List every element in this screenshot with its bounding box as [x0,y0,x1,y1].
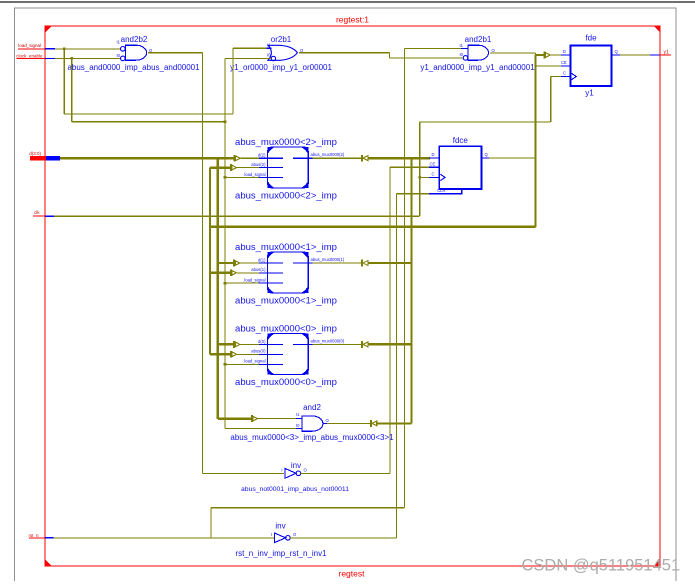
wire inv output to fdce CE vertical [301,472,390,474]
svg-text:abus_not0001_imp_abus_not00011: abus_not0001_imp_abus_not00011 [241,486,349,493]
svg-text:d(2): d(2) [258,153,266,158]
svg-text:d(1): d(1) [258,257,266,262]
bus tap arrow into fde D [544,52,551,59]
flip-flop fdce [429,136,489,194]
wire fdce CLR from rst_n_inv [397,194,429,538]
bus horizontal to left bundle [210,226,536,228]
wire tap to fde D pin [550,54,561,56]
svg-text:abus_mux0000(0): abus_mux0000(0) [311,338,345,343]
wire tap to mux d(2) pin [241,157,259,159]
flip-flop fde y1 [561,33,620,97]
svg-text:y1: y1 [585,89,594,98]
wire fdce CE from inv abus_not0001 [390,167,429,473]
wire clk to clock vertical [54,215,420,217]
svg-text:rst_n_inv_imp_rst_n_inv1: rst_n_inv_imp_rst_n_inv1 [235,549,327,558]
wire mux 1 output [313,262,363,264]
svg-text:regtest: regtest [339,569,366,579]
svg-text:D: D [432,152,435,157]
svg-text:abus_mux0000<0>_imp: abus_mux0000<0>_imp [235,377,337,388]
svg-text:d(3:0): d(3:0) [29,151,41,156]
bus tap arrow abus(1) [210,272,230,274]
wire mux 0 output [313,343,363,345]
svg-text:regtest:1: regtest:1 [336,15,369,25]
svg-text:CE: CE [561,60,567,65]
wire tap to mux d(0) pin [240,343,259,345]
input port load_signal [18,43,55,49]
bus tap arrow d(3) [251,415,258,422]
border corner triangle bottom-right [654,560,661,567]
svg-text:abus_mux0000<3>_imp_abus_mux00: abus_mux0000<3>_imp_abus_mux0000<3>1 [230,433,394,442]
wire tap to mux abus(0) pin [237,353,259,355]
wire tap to and2 I1 [257,418,296,420]
wire rst_n_inv output to fdce CLR vertical [290,537,396,539]
svg-text:I: I [281,468,282,473]
mux abus_mux0000<0>_imp [235,323,345,374]
mux abus_mux0000<2>_imp [235,137,345,188]
svg-text:abus_mux0000<2>_imp: abus_mux0000<2>_imp [235,190,337,201]
bus tap arrow d(1) [218,262,233,264]
svg-text:C: C [563,71,566,76]
wire mux 2 output [313,157,363,159]
output port y1 [660,49,672,55]
bus vertical at fde [534,55,536,227]
bus tap arrow output 1 [361,260,368,267]
input port clk [33,210,54,216]
wire tap to mux abus(1) pin [237,272,259,274]
wire loop clock_enable horizontal [72,121,225,123]
inverter inv abus_not0001 [281,461,307,478]
and gate and2 [296,403,330,431]
and gate and2b2 [117,35,154,61]
svg-text:C: C [432,172,435,177]
wire loop load_signal left vertical [63,49,65,114]
input port rst_n [28,533,53,538]
wire loop load_signal right vertical [232,48,234,114]
svg-text:CLR: CLR [437,188,445,193]
svg-text:fde: fde [585,33,597,42]
border corner triangle bottom-left [45,560,52,567]
input port clock_enable [16,54,55,59]
bus tap arrow output 0 [361,341,368,348]
bus tap arrow d(0) [218,343,233,345]
bus d vertical [217,158,219,419]
svg-text:y1_or0000_imp_y1_or00001: y1_or0000_imp_y1_or00001 [230,63,332,72]
wire fde C to clock net [420,77,561,217]
and gate and2b1 [460,35,496,60]
svg-text:abus_mux0000(2): abus_mux0000(2) [311,152,345,157]
junction load_signal at mux 0 [224,363,227,366]
svg-text:y1_and0000_imp_y1_and00001: y1_and0000_imp_y1_and00001 [420,63,535,72]
bus abus right vertical [410,158,412,423]
bus nub to fde D tap [536,54,544,56]
wire or2b1 I0 from clock_enable loop [225,58,271,60]
wire and2b2 output to inv abus_not0001 input [148,53,284,474]
bus abus corner to mux2 tap [210,166,230,168]
svg-text:abus_mux0000<1>_imp: abus_mux0000<1>_imp [235,295,337,306]
wire fdce C from clock net [420,176,429,178]
bus tap arrow output 2 [361,155,368,162]
wire and2b1 output to fde D tap [490,53,536,55]
bus tap arrow and2 output [370,420,377,427]
inverter inv rst_n_inv [271,522,297,543]
svg-text:fdce: fdce [453,136,469,145]
svg-text:inv: inv [275,522,285,531]
wire rst_n to inv input [54,537,275,539]
bus d corner to and2 tap [218,417,251,419]
wire loop clock_enable left vertical [71,58,73,121]
bus segment mux 1 output to abus bus [368,262,411,264]
svg-text:or2b1: or2b1 [271,35,292,44]
bus segment mux 0 output to abus bus [368,343,411,345]
window top edge line [0,1,695,3]
svg-text:I: I [271,532,272,537]
wire clock_enable to and2b2 I0 [55,57,121,59]
svg-text:abus(0): abus(0) [251,349,266,354]
junction load_signal at mux 1 [224,282,227,285]
svg-text:inv: inv [291,461,301,470]
wire fdce Q to bus vertical [489,157,536,159]
junction clock_enable net at select vertical [224,120,227,123]
wire select net vertical [224,59,226,429]
svg-text:abus_mux0000(1): abus_mux0000(1) [311,257,345,262]
svg-text:load_signal: load_signal [244,359,265,364]
bus tap arrow abus(0) [210,353,230,355]
svg-text:CE: CE [430,161,436,166]
mux abus_mux0000<1>_imp [235,242,345,293]
wire loop load_signal horizontal [64,113,233,115]
wire or2b1 output to and2b1 I0 [299,53,463,58]
wire fde Q to output port [620,54,660,56]
svg-text:abus_mux0000<2>_imp: abus_mux0000<2>_imp [235,137,337,148]
or gate or2b1 [267,35,305,61]
svg-text:and2: and2 [303,403,321,412]
svg-text:abus_mux0000<1>_imp: abus_mux0000<1>_imp [235,242,337,253]
input bus port d(3:0) [29,151,60,160]
svg-text:load_signal: load_signal [244,172,265,177]
junction load_signal at mux 2 [224,176,227,179]
wire load_signal to mux 1 pin [225,282,259,284]
wire tap to mux abus(2) pin [237,167,259,169]
bus tap arrow abus(2) [230,164,237,171]
wire load_signal to mux 2 pin [225,176,259,178]
junction clock at fdce C [418,176,421,179]
wire and2 output to abus tap [327,422,371,424]
junction clock_enable loop [71,57,73,59]
bus tap arrow d(2) [234,155,241,162]
wire load_signal to mux 0 pin [225,363,259,365]
wire load_signal to and2b2 I1 [55,48,121,50]
svg-text:abus_mux0000<0>_imp: abus_mux0000<0>_imp [235,323,337,334]
svg-text:abus(1): abus(1) [251,267,266,272]
wire fde CE from bus vertical [536,65,561,67]
wire or2b1 I1 from load_signal loop [233,47,267,49]
svg-text:CSDN @q511951451: CSDN @q511951451 [522,557,681,575]
svg-text:D: D [563,49,566,54]
border corner triangle top-right [654,26,661,33]
wire tap to mux d(1) pin [240,262,259,264]
bus d(3:0) horizontal [60,157,234,159]
svg-text:abus_and0000_imp_abus_and00001: abus_and0000_imp_abus_and00001 [67,63,200,72]
svg-text:d(0): d(0) [258,339,266,344]
svg-text:and2b2: and2b2 [121,35,148,44]
svg-text:and2b1: and2b1 [465,35,492,44]
wire and2b1 I1 from rst_n net [211,49,461,538]
bus abus left vertical [209,168,211,355]
svg-text:clk: clk [34,210,40,215]
border corner triangle top-left [45,26,52,33]
svg-text:load_signal: load_signal [18,43,41,48]
bus segment mux 2 output to abus bus [368,157,430,159]
junction load_signal loop [63,48,65,50]
bus corner to and2 output tap [377,422,412,424]
svg-text:load_signal: load_signal [244,278,265,283]
svg-text:abus(2): abus(2) [251,162,266,167]
wire select net to and2 I0 [225,427,302,429]
